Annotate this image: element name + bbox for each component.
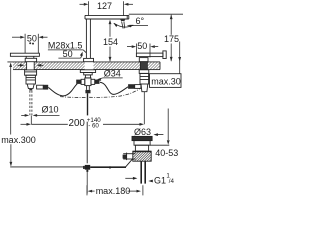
- svg-text:50: 50: [63, 49, 73, 59]
- aerator wedge: [120, 19, 126, 21]
- left handle lever: [10, 53, 39, 62]
- svg-text:200: 200: [69, 118, 86, 129]
- deck-level arrows at left valve shank: [18, 64, 21, 66]
- spout arm: [85, 15, 129, 19]
- svg-text:Ø34: Ø34: [104, 69, 121, 79]
- pop-up waste assembly: [132, 136, 152, 151]
- angle arc with arrows: [114, 23, 133, 27]
- hose reach line: [10, 166, 85, 168]
- waste body step extension line: [150, 144, 169, 146]
- dimension 50 left: [12, 33, 48, 53]
- svg-text:127: 127: [97, 1, 112, 11]
- right handle lever: [136, 51, 166, 62]
- diameter 10 dimension arrows: [21, 114, 25, 116]
- svg-text:max.180: max.180: [96, 186, 131, 196]
- label G1 1/4 with leaders: [125, 177, 134, 179]
- right handle shank through deck (dark): [140, 62, 147, 70]
- right valve under deck: [139, 70, 149, 92]
- dash-dot hose centerline: [60, 88, 141, 98]
- svg-text:/4: /4: [169, 178, 175, 185]
- spout right hose fitting: [95, 80, 100, 84]
- svg-text:40-53: 40-53: [155, 148, 178, 158]
- svg-text:6°: 6°: [136, 16, 145, 26]
- label max.30 box: [150, 74, 182, 88]
- dimension 40-53: [167, 109, 169, 141]
- svg-text:Ø63: Ø63: [134, 127, 151, 137]
- svg-text:max.300: max.300: [1, 135, 36, 145]
- 200 dim right extension line: [143, 92, 145, 124]
- spout left hose fitting: [76, 80, 81, 84]
- svg-text:50: 50: [137, 41, 147, 51]
- svg-text:max.30: max.30: [151, 76, 181, 86]
- dimension max.300: [1, 63, 36, 167]
- dimension max.30 vertical line: [178, 42, 181, 74]
- two dots above left handle: [29, 42, 31, 44]
- dimension 127: [80, 1, 134, 16]
- waste locknut hatched: [133, 151, 151, 161]
- spout base plate: [84, 58, 94, 61]
- left hose S-curve: [48, 84, 77, 96]
- svg-text:- 60: - 60: [88, 122, 99, 129]
- left valve under deck: [25, 70, 37, 89]
- countertop deck hatched band: [7, 62, 160, 70]
- spout shank below deck: flange, step, tube, tee: [80, 70, 95, 90]
- right valve hose fitting: [135, 85, 141, 89]
- right hose S-curve: [100, 82, 128, 94]
- pop-up lift rod: [87, 93, 89, 115]
- svg-text:175: 175: [164, 34, 179, 44]
- diameter 10 dashed tail pipe: [29, 91, 31, 116]
- pop-up rod junction: [85, 165, 90, 170]
- svg-text:50: 50: [27, 33, 37, 43]
- dimension 154: [103, 20, 118, 62]
- waste side inlet: [123, 153, 135, 155]
- left handle shank through deck: [26, 62, 28, 70]
- svg-text:Ø10: Ø10: [42, 105, 59, 115]
- spout top extension line to 175 dim: [129, 13, 183, 15]
- water stream 6 deg lines: [122, 21, 124, 28]
- rod guide block: [85, 90, 90, 93]
- left valve hose fitting: [37, 85, 44, 89]
- dimension 200 +140/-60: [21, 116, 145, 130]
- dimension 50 right: [127, 41, 158, 57]
- dimension max.180: [87, 185, 143, 196]
- waste outlet pipe: [141, 161, 145, 183]
- dimension 175: [164, 15, 179, 62]
- spout column: [86, 19, 90, 58]
- svg-text:G1: G1: [154, 176, 166, 186]
- svg-text:154: 154: [103, 37, 118, 47]
